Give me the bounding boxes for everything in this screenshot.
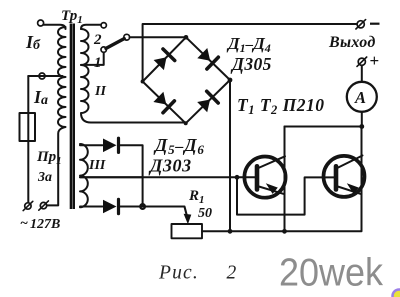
svg-text:+: + <box>370 51 380 70</box>
svg-text:50: 50 <box>198 206 212 221</box>
svg-text:Д5–Д6: Д5–Д6 <box>153 135 205 157</box>
svg-text:Тр1: Тр1 <box>61 8 83 26</box>
svg-text:R1: R1 <box>188 188 205 206</box>
svg-text:2: 2 <box>93 32 102 48</box>
svg-text:Т1 Т2 П210: Т1 Т2 П210 <box>237 95 325 117</box>
svg-text:Д305: Д305 <box>230 54 272 74</box>
svg-text:~: ~ <box>20 216 28 231</box>
svg-text:127В: 127В <box>30 217 60 232</box>
svg-text:Д1–Д4: Д1–Д4 <box>226 34 271 55</box>
svg-text:3а: 3а <box>37 170 52 185</box>
svg-text:III: III <box>88 158 106 173</box>
svg-text:Выход: Выход <box>328 34 376 51</box>
svg-text:2: 2 <box>227 263 237 284</box>
svg-text:Рис.: Рис. <box>158 263 199 284</box>
svg-text:Д303: Д303 <box>148 156 192 176</box>
svg-text:1: 1 <box>94 55 102 71</box>
svg-text:Iб: Iб <box>25 32 41 53</box>
svg-text:20wek: 20wek <box>279 252 384 295</box>
svg-text:II: II <box>94 84 106 99</box>
svg-text:А: А <box>354 88 366 107</box>
svg-text:Iа: Iа <box>33 87 48 108</box>
